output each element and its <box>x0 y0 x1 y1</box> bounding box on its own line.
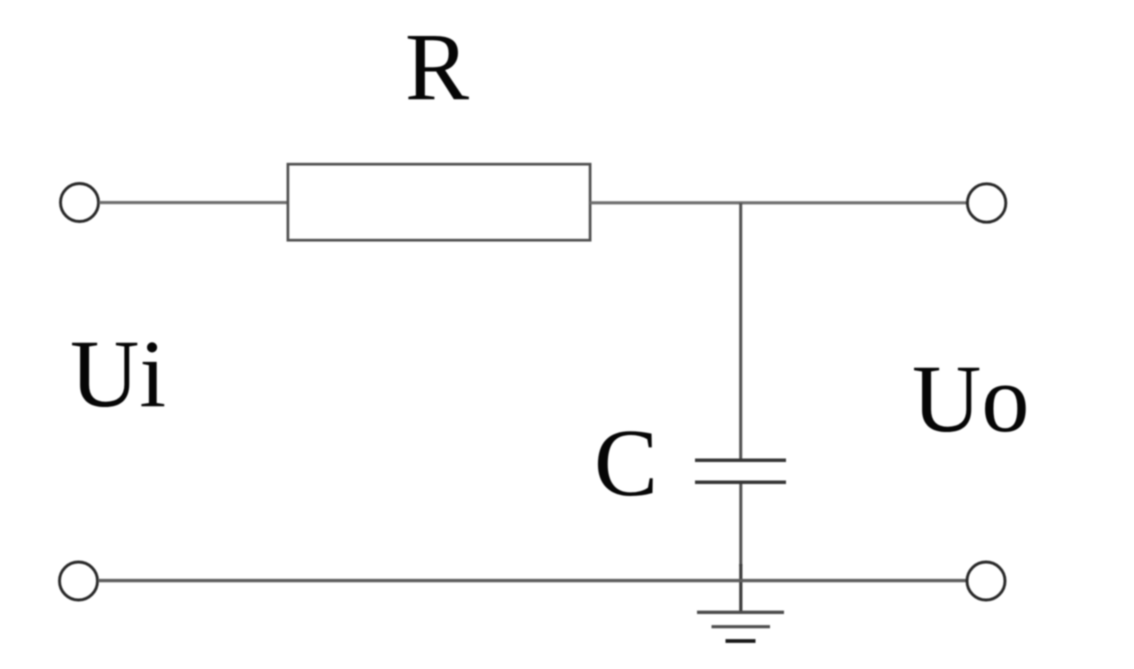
node Uo- : bottom-right terminal circle <box>967 562 1005 600</box>
wire: capacitor C bottom plate down to bottom rail <box>739 484 742 566</box>
svg-text:Ui: Ui <box>70 320 166 427</box>
wire: junction segment crossing bottom rail down to ground <box>739 564 742 612</box>
svg-text:Uo: Uo <box>912 345 1029 452</box>
node Ui+ : input terminal circle (top-left) <box>61 184 99 222</box>
node Ui- : bottom-left terminal circle <box>60 562 98 600</box>
resistor R (rectangular body) <box>288 164 590 240</box>
wire: node A down to capacitor C top plate <box>739 203 742 459</box>
capacitor C bottom plate <box>695 481 786 485</box>
svg-text:R: R <box>405 13 469 120</box>
wire: input terminal to resistor R left lead <box>99 201 288 204</box>
svg-text:C: C <box>594 409 658 516</box>
capacitor C top plate <box>695 459 786 463</box>
ground (earth symbol) <box>697 612 784 641</box>
wire: resistor R right lead to output terminal, through node A <box>590 201 967 204</box>
node Uo : output terminal circle (top-right) <box>967 184 1005 222</box>
wire: bottom rail from bottom-left terminal to bottom-right terminal <box>98 579 967 582</box>
